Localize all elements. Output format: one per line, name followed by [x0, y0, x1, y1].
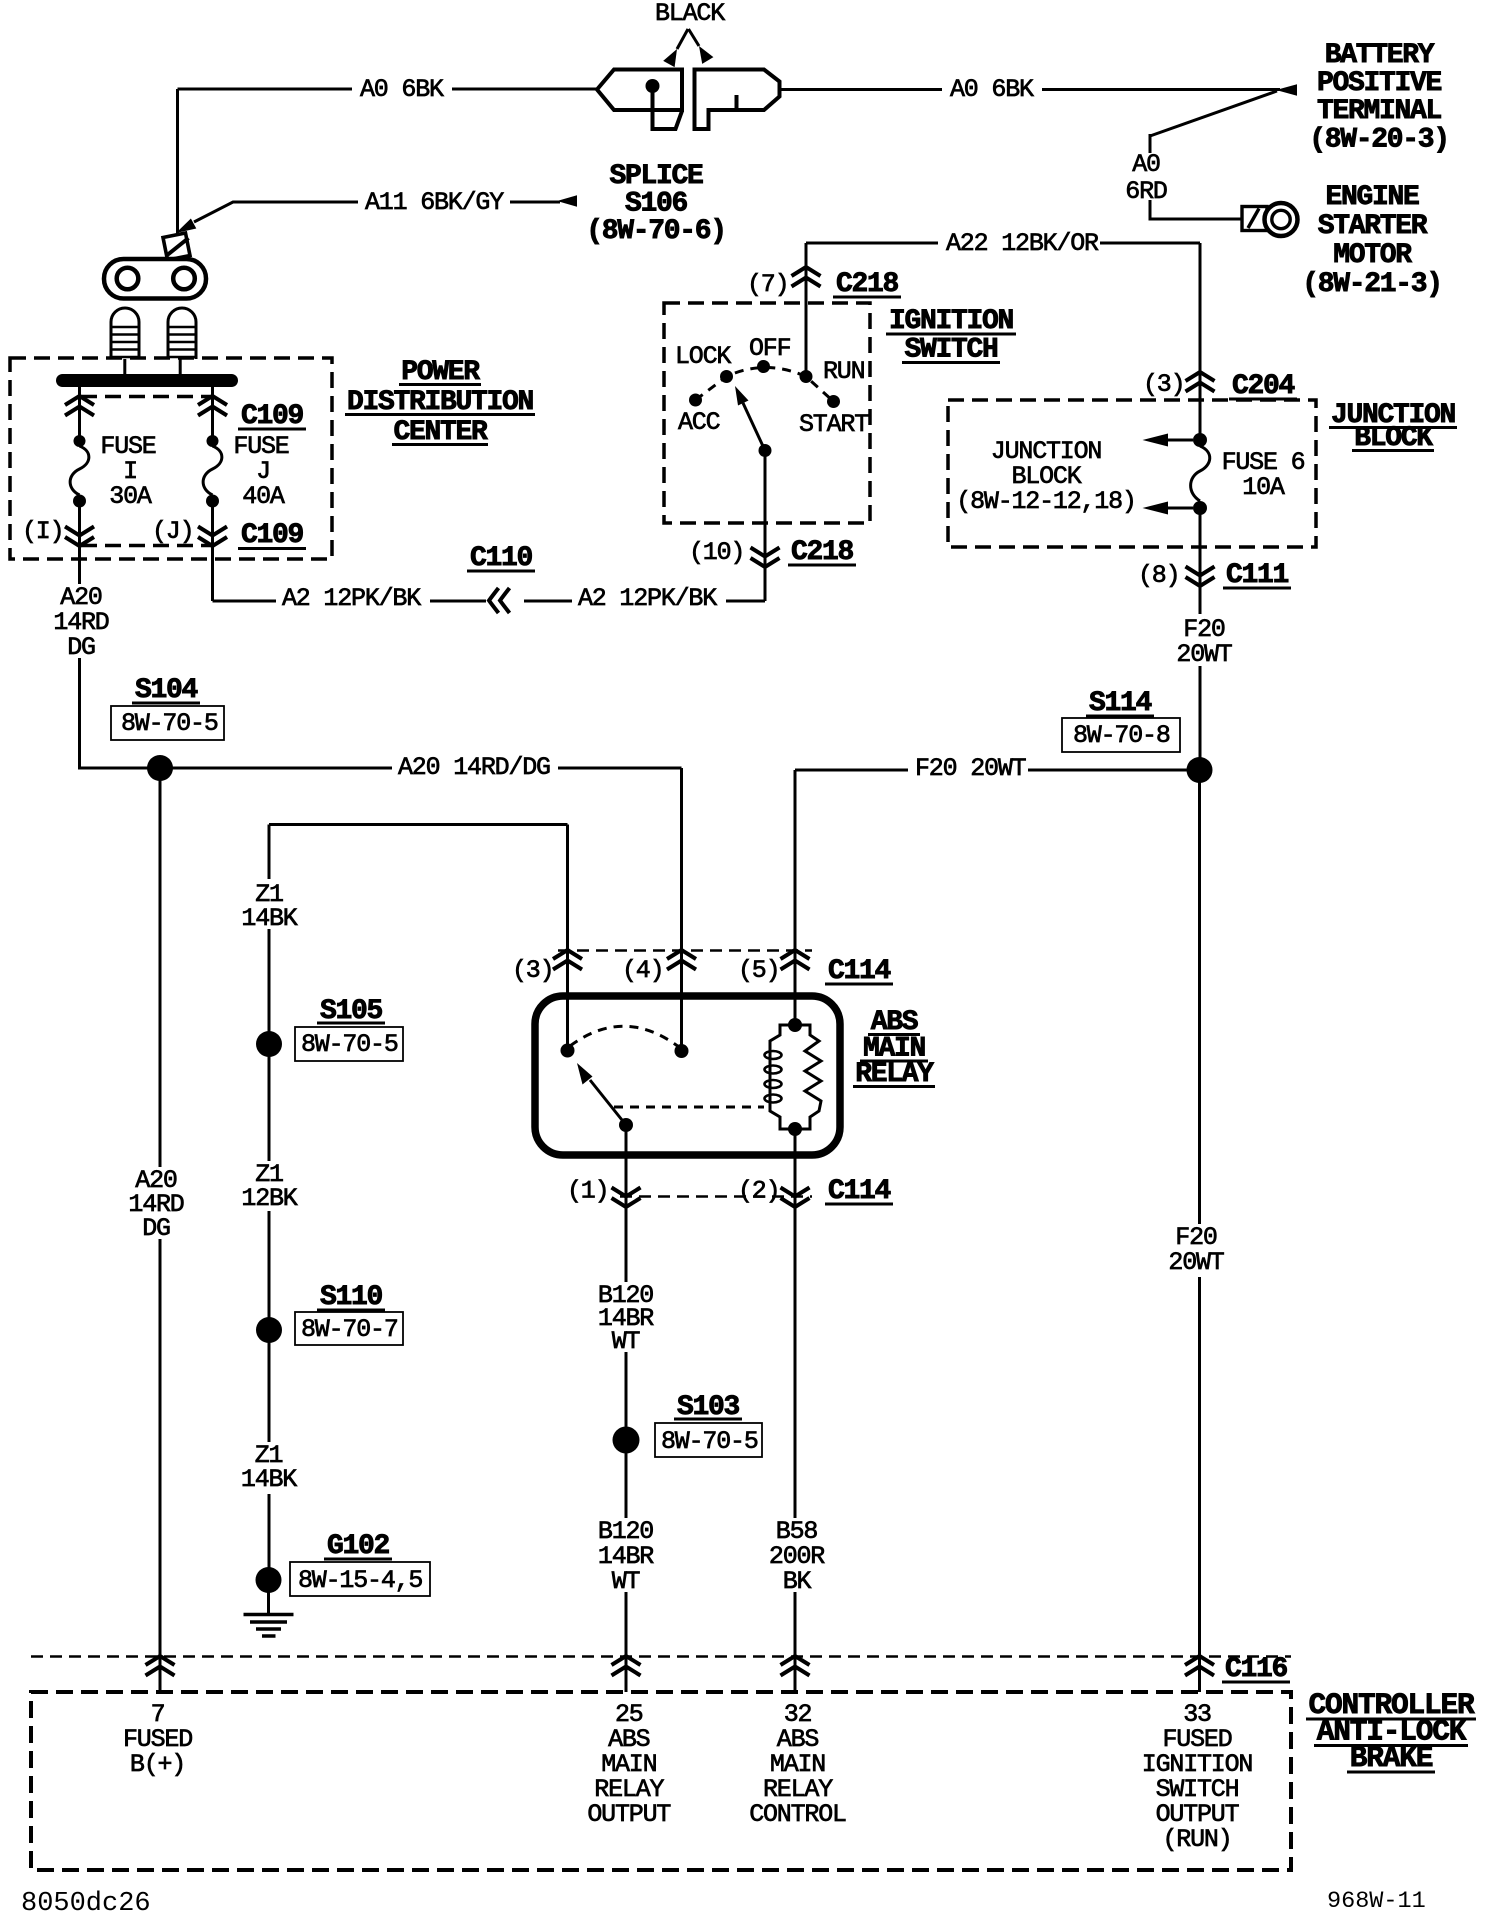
wire G102 ground stem	[267, 1580, 270, 1613]
relay coil top dot	[788, 1018, 802, 1032]
svg-text:40A: 40A	[242, 482, 285, 511]
svg-text:10A: 10A	[1242, 473, 1285, 502]
svg-text:C109: C109	[241, 520, 304, 551]
svg-text:20WT: 20WT	[1168, 1248, 1224, 1277]
wire fuse J output down to A2 corner	[211, 507, 214, 601]
connector chevron C218 pin 7	[792, 267, 821, 287]
relay armature pivot dot	[619, 1118, 633, 1132]
value label FUSE J 40A	[233, 432, 288, 511]
reference box 8W-70-5 for S105	[295, 1027, 403, 1061]
engine starter motor symbol	[1242, 207, 1267, 231]
svg-text:F20 20WT: F20 20WT	[915, 754, 1027, 783]
label JUNCTION BLOCK (8W-12-12,18) inside	[956, 437, 1135, 516]
svg-text:RUN: RUN	[823, 357, 865, 386]
connector C110 in-line chevrons	[486, 586, 524, 616]
svg-text:968W-11: 968W-11	[1327, 1888, 1426, 1915]
splice S106 connector left half	[597, 70, 682, 111]
svg-text:B(+): B(+)	[130, 1750, 185, 1779]
value label FUSE 6 10A	[1222, 448, 1305, 502]
net label F20 20WT below C111	[1172, 614, 1236, 669]
svg-text:CONTROL: CONTROL	[749, 1800, 846, 1829]
arrowhead at battery terminal for A11 callout	[176, 219, 196, 234]
label CONTROLLER ANTI-LOCK BRAKE	[1308, 1688, 1475, 1775]
ignition contact ACC	[689, 394, 702, 407]
svg-text:POSITIVE: POSITIVE	[1317, 68, 1442, 99]
C109 connector dashed line bottom	[81, 544, 212, 548]
connector chevron C116 pin 33	[1185, 1656, 1214, 1676]
ground symbol G102	[244, 1615, 294, 1637]
wire A0 6RD stub	[1149, 134, 1152, 153]
wire A22 12BK/OR horizontal	[806, 242, 1200, 245]
svg-text:MOTOR: MOTOR	[1333, 240, 1412, 271]
svg-text:STARTER: STARTER	[1318, 211, 1428, 242]
net label Z1 12BK	[235, 1160, 303, 1213]
connector chevron C114 pin 1	[612, 1188, 641, 1208]
svg-text:(8W-20-3): (8W-20-3)	[1309, 125, 1449, 156]
svg-text:C218: C218	[836, 269, 899, 300]
svg-text:DG: DG	[67, 633, 95, 662]
C109 connector dashed line top	[81, 395, 212, 399]
junction block output dot	[1193, 501, 1207, 515]
svg-text:DG: DG	[142, 1214, 170, 1243]
svg-text:(5): (5)	[738, 956, 779, 985]
svg-text:C109: C109	[241, 401, 304, 432]
reference box 8W-15-4,5 for G102	[290, 1562, 430, 1596]
wire Z1 horizontal branch to relay pin 3	[269, 823, 568, 826]
svg-text:A11 6BK/GY: A11 6BK/GY	[365, 188, 504, 217]
connector chevron C114 pin 3	[553, 950, 582, 970]
connector chevron C116 pin 25	[612, 1656, 641, 1676]
svg-text:A2 12PK/BK: A2 12PK/BK	[578, 584, 717, 613]
svg-text:(8W-21-3): (8W-21-3)	[1302, 269, 1442, 300]
pin 25 ABS MAIN RELAY OUTPUT	[587, 1700, 671, 1829]
label JUNCTION BLOCK heading	[1331, 400, 1455, 454]
battery terminal clamp	[163, 233, 190, 260]
svg-text:LOCK: LOCK	[675, 342, 731, 371]
ignition switch dashed box	[664, 303, 870, 523]
connector chevron C116 pin 7	[146, 1656, 175, 1676]
net label B58 200R BK	[763, 1517, 830, 1596]
svg-text:S110: S110	[320, 1282, 383, 1313]
controller anti-lock brake dashed box	[31, 1692, 1291, 1870]
reference box 8W-70-7 for S110	[295, 1312, 403, 1345]
svg-text:30A: 30A	[109, 482, 152, 511]
svg-text:ACC: ACC	[678, 408, 720, 437]
svg-text:14BK: 14BK	[241, 1465, 297, 1494]
svg-text:A20 14RD/DG: A20 14RD/DG	[398, 753, 550, 782]
wire fuse I input from bus bar	[78, 387, 81, 436]
svg-text:(2): (2)	[738, 1177, 779, 1206]
net label A0 6BK left	[352, 75, 452, 104]
svg-text:(8W-70-6): (8W-70-6)	[586, 216, 726, 247]
splice S106 connector right half	[695, 70, 780, 130]
connector chevron C116 pin 32	[781, 1656, 810, 1676]
net label Z1 14BK lower	[235, 1441, 303, 1494]
connector chevrons C109 pin J bottom	[198, 527, 227, 547]
svg-text:(1): (1)	[567, 1177, 608, 1206]
connector chevron C204 pin 3	[1186, 372, 1215, 392]
relay dashed link to coil	[614, 1106, 764, 1109]
value label FUSE I 30A	[100, 432, 155, 511]
BLACK callout arrow left	[677, 29, 688, 49]
net label A20 14RD/DG horizontal	[392, 753, 558, 782]
svg-text:BLACK: BLACK	[655, 0, 725, 28]
splice S104 dot	[147, 755, 173, 781]
pin 7 FUSED B(+)	[123, 1700, 192, 1779]
label POWER DISTRIBUTION CENTER	[347, 357, 533, 448]
svg-text:BATTERY: BATTERY	[1325, 40, 1435, 71]
wire Z1 ground run down to G102	[268, 825, 271, 1581]
net label F20 20WT right column	[1163, 1223, 1237, 1277]
relay contact pin 4 dot	[675, 1044, 689, 1058]
pin 33 FUSED IGNITION SWITCH OUTPUT (RUN)	[1142, 1700, 1253, 1854]
wire ignition wiper pivot down through C218-10 to A2 corner	[764, 456, 767, 601]
wire A20 14RD DG from S104 down to CAB pin 7	[159, 768, 162, 1692]
svg-text:14BK: 14BK	[241, 904, 297, 933]
ignition contact LOCK	[720, 370, 733, 383]
connector chevrons C109 pin I top	[65, 396, 94, 416]
svg-text:C204: C204	[1232, 371, 1295, 402]
reference box 8W-70-5 for S103	[655, 1423, 762, 1457]
connector chevron C114 pin 4	[667, 950, 696, 970]
svg-text:S104: S104	[135, 675, 198, 706]
net label A22 12BK/OR	[938, 229, 1100, 258]
net label A11 6BK/GY	[358, 188, 510, 217]
svg-text:20WT: 20WT	[1176, 640, 1232, 669]
svg-text:WT: WT	[612, 1327, 641, 1356]
relay contact pin 3 dot	[561, 1044, 575, 1058]
wire relay pin 4 drop	[680, 768, 683, 1051]
wire diagonal from battery positive arrow to A0 6RD node	[1150, 91, 1277, 136]
wire relay pin 5 drop	[794, 770, 797, 1025]
net label F20 20WT horizontal	[908, 754, 1028, 783]
net label B120 14BR WT lower	[592, 1517, 659, 1596]
ignition switch contact arc dashed	[696, 368, 834, 402]
junction block dashed box	[948, 400, 1316, 547]
svg-text:SPLICE: SPLICE	[609, 161, 703, 192]
wire fuse J input from bus bar	[211, 387, 214, 436]
net label A2 12PK/BK left	[276, 584, 430, 613]
svg-text:A2 12PK/BK: A2 12PK/BK	[282, 584, 421, 613]
ignition wiper arm with arrowhead	[743, 403, 765, 451]
svg-text:(I): (I)	[22, 517, 63, 546]
fusible link coil right	[168, 308, 196, 359]
splice S106 right half pin tick	[735, 95, 739, 110]
connector chevron C111 pin 8	[1186, 567, 1215, 587]
svg-text:C116: C116	[1225, 1654, 1288, 1685]
wire A2 12PK/BK horizontal run	[213, 600, 766, 603]
svg-text:8W-70-5: 8W-70-5	[121, 709, 218, 738]
wire junction block fuse 6 output F20 down to S114	[1199, 514, 1202, 770]
relay coil bottom dot	[788, 1122, 802, 1136]
wire A20 14RD/DG horizontal from S104 to relay pin 4	[160, 767, 682, 770]
svg-text:(RUN): (RUN)	[1162, 1825, 1231, 1854]
junction block output arrow left	[1168, 507, 1193, 510]
svg-text:A22 12BK/OR: A22 12BK/OR	[946, 229, 1099, 258]
BLACK callout arrow right	[689, 29, 700, 46]
net label A0 6BK right	[942, 75, 1042, 104]
relay armature arm with arrowhead	[590, 1080, 626, 1125]
connector chevron C114 pin 5	[781, 950, 810, 970]
svg-text:S114: S114	[1089, 688, 1152, 719]
svg-text:(7): (7)	[747, 270, 788, 299]
battery top view	[104, 259, 206, 299]
splice S110 dot	[256, 1317, 282, 1343]
wire relay pin 2 B58 down to CAB pin 32	[794, 1129, 797, 1692]
svg-text:12BK: 12BK	[241, 1184, 297, 1213]
svg-text:OUTPUT: OUTPUT	[587, 1800, 671, 1829]
svg-text:(J): (J)	[152, 517, 193, 546]
PDC dashed box	[10, 358, 332, 559]
svg-text:(3): (3)	[512, 956, 553, 985]
label ABS MAIN RELAY	[855, 1007, 934, 1090]
ABS main relay box	[535, 996, 840, 1155]
svg-text:A0: A0	[1132, 150, 1160, 179]
svg-text:C218: C218	[791, 537, 854, 568]
svg-text:ENGINE: ENGINE	[1325, 182, 1419, 213]
wedge arrow pointing to splice S106 from A11 label	[508, 201, 560, 204]
junction block feed arrow left	[1168, 439, 1193, 442]
wire A11 6BK/GY callout line	[194, 202, 362, 222]
wire A0 6BK left segment	[178, 88, 597, 91]
svg-text:8W-70-8: 8W-70-8	[1073, 721, 1170, 750]
pin 32 ABS MAIN RELAY CONTROL	[749, 1700, 846, 1829]
splice S106 wire dot	[646, 79, 660, 93]
splice S106 left half terminal tab	[653, 92, 683, 129]
net label A0 6RD	[1125, 150, 1167, 206]
wire relay pin 1 B120 down to CAB pin 25	[625, 1125, 628, 1692]
wire F20 20WT horizontal from S114 to relay pin 5	[795, 769, 1200, 772]
svg-text:8050dc26: 8050dc26	[21, 1889, 151, 1919]
reference box 8W-70-5 for S104	[111, 706, 224, 740]
svg-text:A0 6BK: A0 6BK	[950, 75, 1034, 104]
svg-text:G102: G102	[327, 1531, 390, 1562]
relay coil body	[770, 1025, 821, 1129]
svg-text:A0 6BK: A0 6BK	[360, 75, 444, 104]
svg-text:WT: WT	[612, 1567, 641, 1596]
svg-text:IGNITION: IGNITION	[889, 306, 1013, 337]
svg-text:8W-70-5: 8W-70-5	[301, 1030, 398, 1059]
svg-text:TERMINAL: TERMINAL	[1317, 96, 1442, 127]
connector chevrons C109 pin J top	[198, 396, 227, 416]
connector C116 dashed line	[31, 1655, 1291, 1658]
wire A0 6BK drop to battery terminal	[176, 89, 179, 234]
wedge arrow at battery positive terminal	[1276, 84, 1297, 96]
net label A20 14RD DG below fuse I	[50, 583, 112, 662]
svg-text:(8): (8)	[1138, 561, 1179, 590]
label IGNITION SWITCH	[889, 306, 1013, 366]
connector C114 dashed line bottom	[620, 1195, 812, 1198]
wire A0 6RD to engine starter motor	[1150, 200, 1243, 219]
ignition contact START	[827, 395, 840, 408]
wire relay pin 3 drop	[566, 825, 569, 1051]
wire fuse I output A20 14RD/DG down to S104 elbow	[80, 507, 153, 768]
svg-text:6RD: 6RD	[1125, 177, 1167, 206]
splice S105 dot	[256, 1031, 282, 1057]
svg-text:8W-70-7: 8W-70-7	[301, 1315, 398, 1344]
connector chevron C218 pin 10	[751, 548, 780, 568]
net label Z1 14BK upper	[235, 879, 303, 933]
net label A20 14RD DG left column	[122, 1166, 190, 1243]
svg-text:(8W-12-12,18): (8W-12-12,18)	[956, 487, 1135, 516]
svg-text:BK: BK	[783, 1567, 812, 1596]
svg-text:S106: S106	[625, 189, 688, 220]
svg-text:8W-70-5: 8W-70-5	[661, 1427, 758, 1456]
label BATTERY POSITIVE TERMINAL (8W-20-3)	[1309, 40, 1449, 156]
coil stems to bus bar	[125, 359, 180, 375]
fuse I element	[74, 435, 86, 447]
wire ignition switch feed down to RUN contact	[805, 243, 808, 371]
wire A22 down to junction block C204	[1199, 243, 1202, 434]
splice S114 dot	[1187, 757, 1213, 783]
svg-text:START: START	[799, 410, 869, 439]
net label B120 14BR WT upper	[592, 1281, 659, 1356]
label SPLICE S106 (8W-70-6)	[586, 161, 726, 247]
junction block feed dot	[1193, 433, 1207, 447]
ignition contact OFF	[757, 360, 770, 373]
label ENGINE STARTER MOTOR (8W-21-3)	[1302, 182, 1442, 300]
wire F20 20WT from S114 splice down to CAB pin 33	[1198, 770, 1201, 1692]
fuse 6 element	[1191, 446, 1210, 501]
svg-text:C114: C114	[828, 1176, 891, 1207]
connector chevrons C109 pin I bottom	[65, 527, 94, 547]
svg-text:OFF: OFF	[749, 334, 791, 363]
splice G102 dot	[256, 1567, 282, 1593]
connector C114 dashed line top	[558, 949, 812, 952]
ignition contact RUN	[800, 370, 813, 383]
connector chevron C114 pin 2	[781, 1188, 810, 1208]
svg-text:C111: C111	[1226, 560, 1289, 591]
svg-text:SWITCH: SWITCH	[904, 335, 997, 366]
svg-text:8W-15-4,5: 8W-15-4,5	[298, 1566, 422, 1595]
svg-text:C114: C114	[828, 956, 891, 987]
ignition wiper pivot	[759, 444, 772, 457]
svg-text:C110: C110	[470, 543, 533, 574]
net label A2 12PK/BK right	[572, 584, 726, 613]
power distribution center bus bar	[56, 374, 238, 387]
splice S103 dot	[613, 1427, 640, 1454]
reference box 8W-70-8 for S114	[1062, 718, 1180, 752]
fusible link coil left	[111, 308, 139, 359]
wire A0 6BK right segment	[779, 88, 1280, 91]
svg-text:(4): (4)	[622, 956, 663, 985]
svg-text:(3): (3)	[1143, 370, 1184, 399]
svg-text:(10): (10)	[689, 538, 744, 567]
fuse J element	[207, 435, 219, 447]
relay dashed contact arc	[570, 1026, 679, 1047]
